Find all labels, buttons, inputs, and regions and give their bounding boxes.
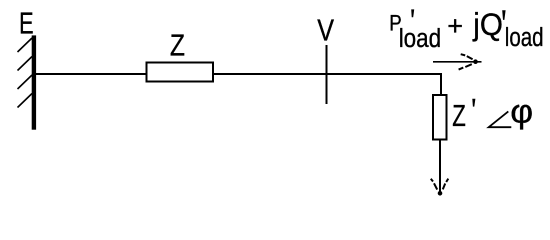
wire: load box down [439,139,441,193]
svg-text:load: load [399,25,441,54]
load current arrow right barb [443,179,449,190]
power flow arrow upper barb [461,54,473,59]
svg-text:Z: Z [170,28,185,62]
power flow arrow tip blob [473,59,478,64]
wire: corner down to load box [440,73,442,96]
svg-text:+: + [447,11,463,41]
prime after P [411,9,414,17]
svg-text:jQ: jQ [472,7,503,42]
wall hatch 2 [18,57,33,71]
power flow arrow lower barb [459,64,472,69]
prime after Q [502,10,505,20]
node V tick [326,45,328,104]
prime after Z [472,99,475,107]
label Z' angle phi [452,94,533,133]
source wall bar [32,35,36,129]
wire: impedance Z to corner [214,73,442,75]
svg-text:E: E [19,6,33,41]
svg-text:Z: Z [452,98,466,132]
svg-text:φ: φ [510,94,533,131]
load current arrow left barb [431,179,437,190]
angle symbol [489,111,512,127]
load current arrow tip blob [438,191,443,196]
load impedance Z' box [433,95,447,140]
label jQ'load [472,7,543,51]
impedance Z box [147,63,214,82]
svg-text:load: load [505,23,544,52]
svg-text:V: V [317,13,334,47]
wall hatch 4 [18,94,33,108]
label P'load [389,9,441,53]
wall hatch 1 [18,38,33,52]
power flow arrow shaft [433,61,482,63]
wire: wall to impedance Z [36,73,146,75]
wall hatch 3 [18,75,33,89]
